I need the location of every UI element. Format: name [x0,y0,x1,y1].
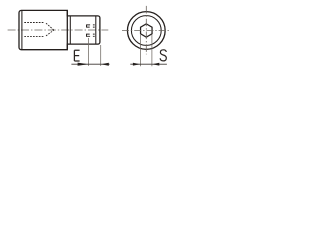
label S [160,50,166,61]
chamfer circle [131,16,161,46]
S left arrow [133,63,140,66]
horizontal centerline end view [122,30,170,32]
E left arrow [78,63,89,66]
S right extension line [151,35,153,66]
label E [74,50,79,61]
socket cone lower hidden line [46,30,54,36]
S left extension line [139,35,141,66]
S dimension line [130,63,152,65]
E left extension line [88,38,90,66]
S right arrow [152,63,159,66]
thread hidden lower lines [86,34,94,36]
hex socket [141,24,153,37]
vertical centerline end view [145,6,147,55]
thread hidden upper lines [86,25,94,27]
socket hidden lower line [24,36,44,38]
body outline [19,10,100,49]
E right extension line [100,45,102,66]
S dimension tail line [152,63,167,65]
E dimension line [71,63,100,65]
boss right chamfer line [95,16,97,43]
body left chamfer line [21,11,23,49]
socket hidden upper line [24,22,44,24]
thread lower end hidden tick [86,34,88,37]
boss left chamfer line [69,17,71,44]
socket cone upper hidden line [46,23,54,30]
step face line [66,10,68,49]
E right arrow [101,63,109,66]
E dimension tail line [101,63,110,65]
outer circle [127,12,165,50]
thread upper end hidden tick [86,25,88,28]
centerline left view [8,29,109,31]
